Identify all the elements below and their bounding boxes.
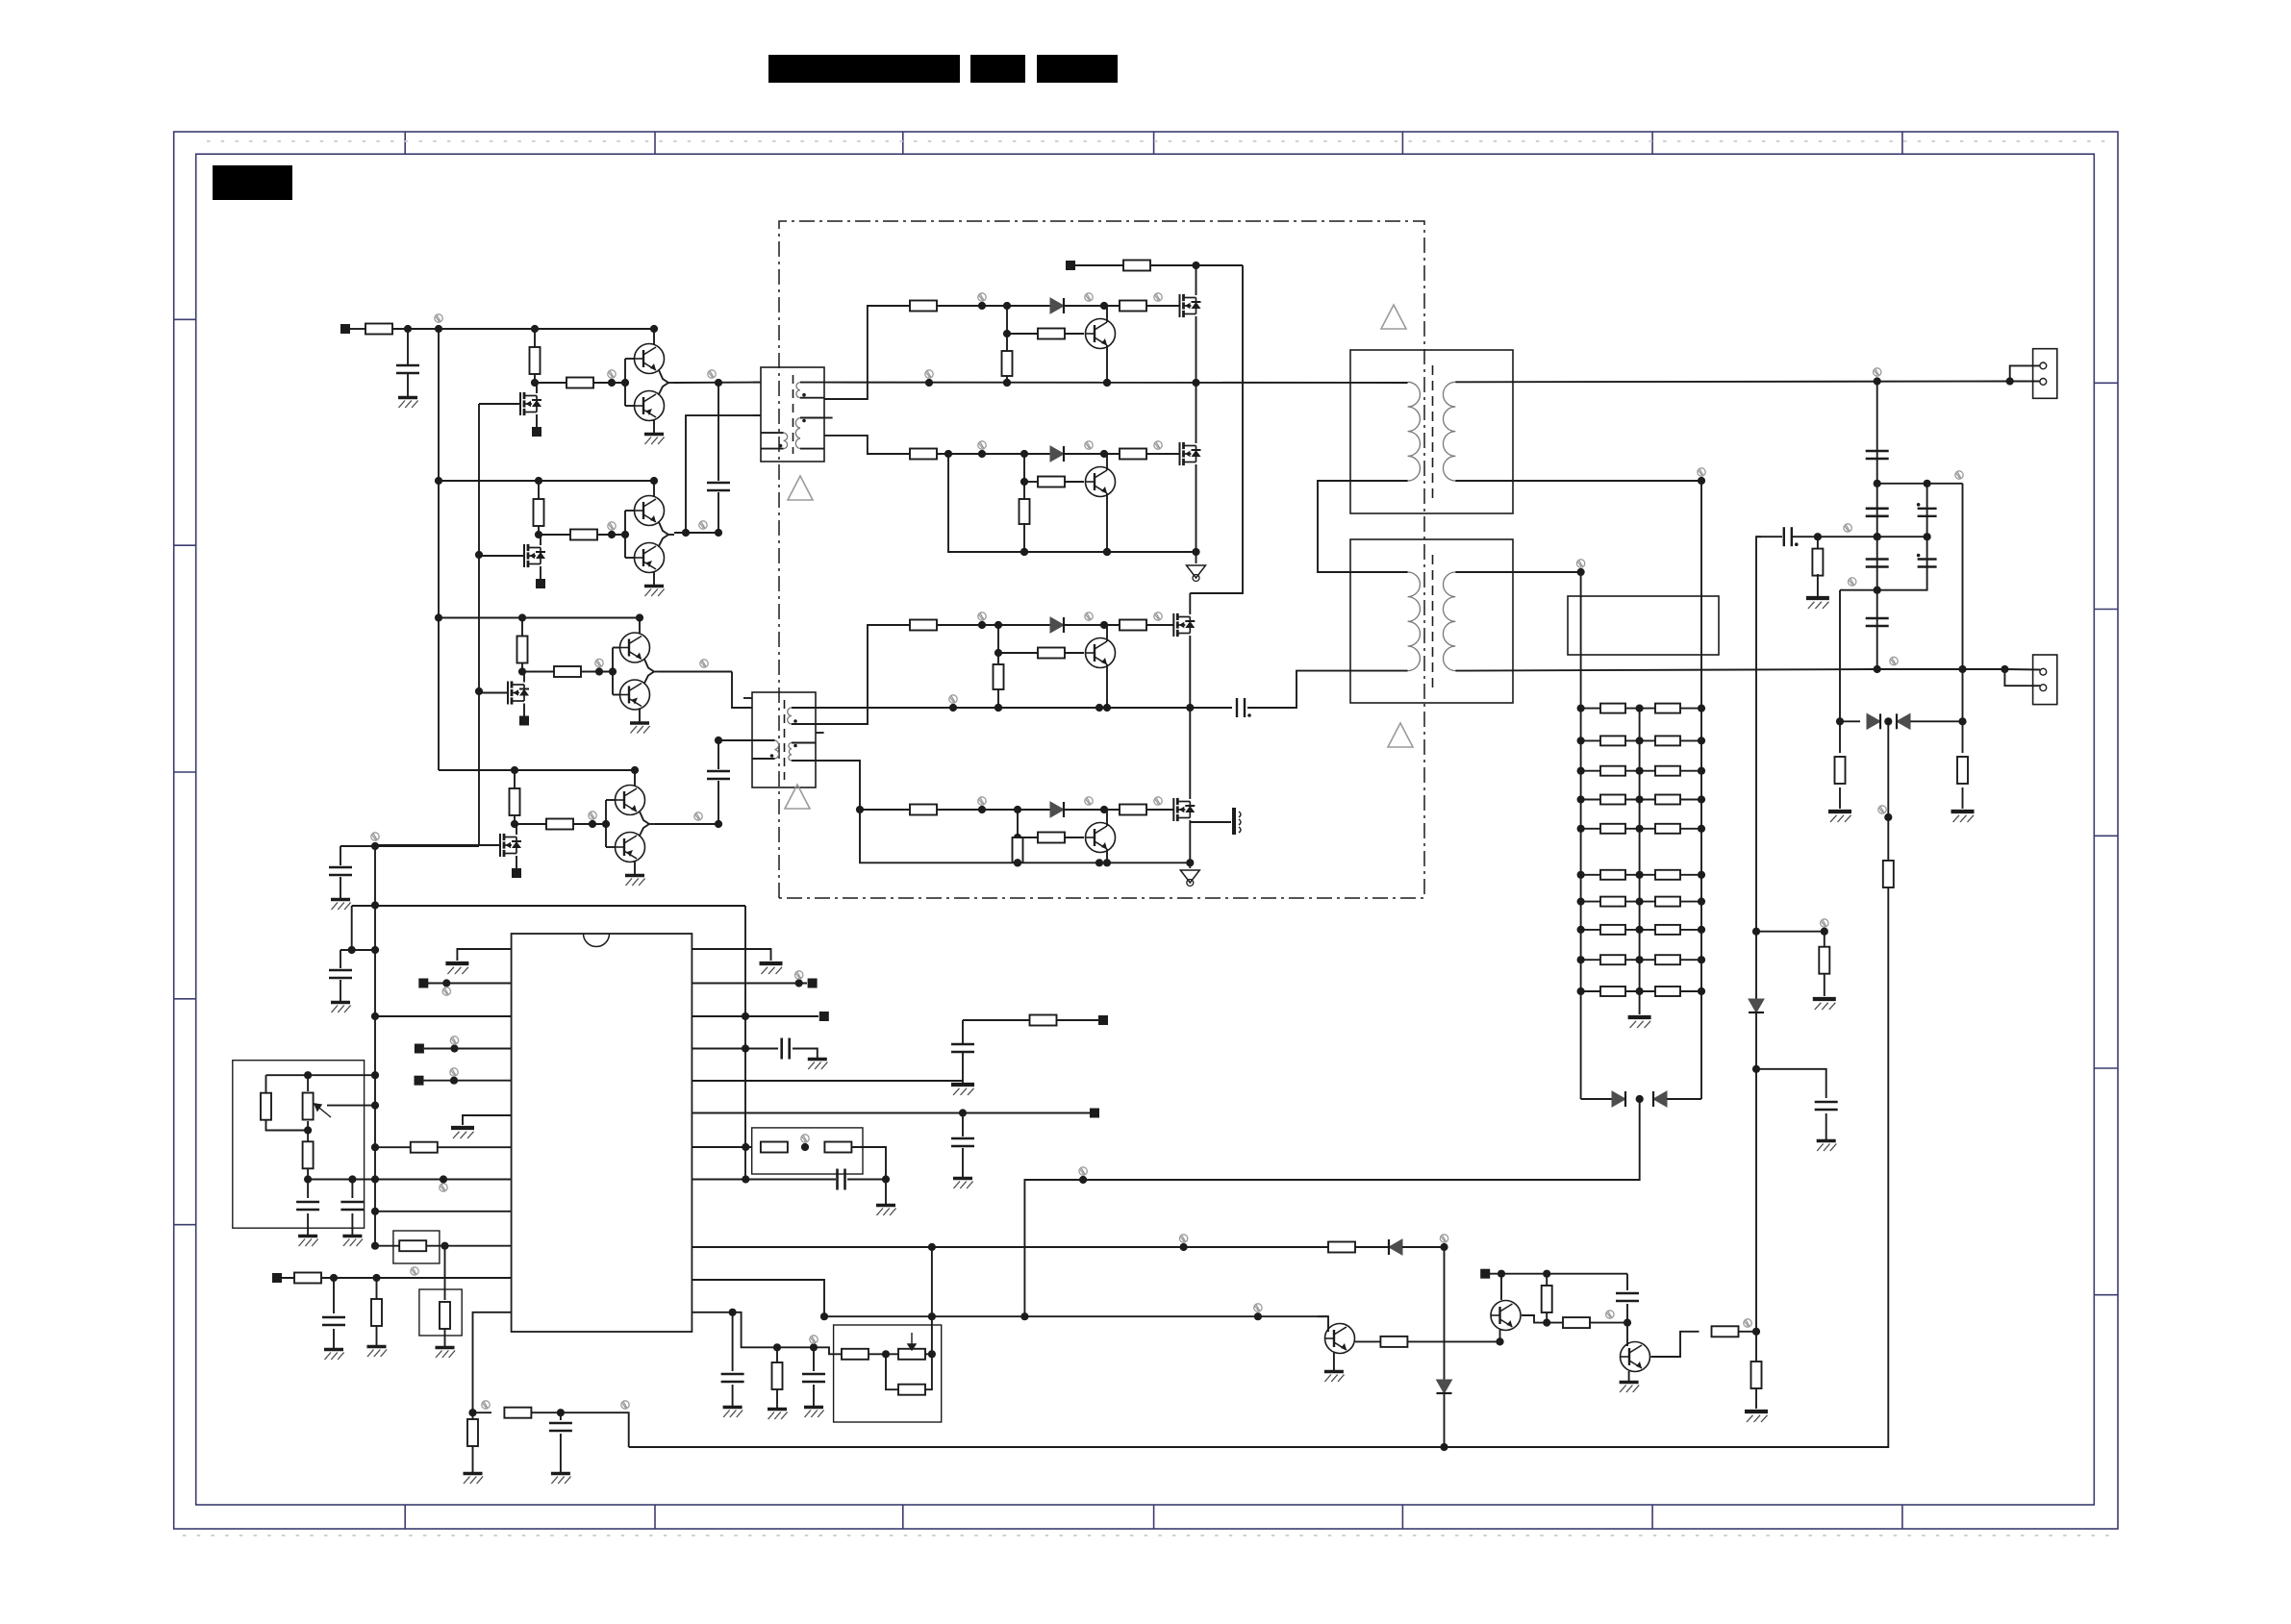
ladder resistor L6b <box>1655 870 1680 880</box>
wire <box>1355 1246 1389 1248</box>
wire <box>1824 932 1825 946</box>
wire <box>376 1278 378 1299</box>
ground <box>630 723 650 734</box>
junction <box>1698 926 1705 934</box>
ground <box>644 435 665 445</box>
ground <box>331 1003 351 1013</box>
junction <box>1192 548 1199 556</box>
ladder row wire <box>1581 929 1701 931</box>
capacitor <box>782 1038 790 1060</box>
T1 polarity dot <box>802 419 806 423</box>
resistor <box>467 1419 478 1446</box>
main transformer T3 body <box>1350 350 1513 513</box>
resistor <box>898 1385 925 1395</box>
frame column tick <box>902 132 904 154</box>
junction <box>1636 898 1644 906</box>
T3 core <box>1432 365 1434 498</box>
ground <box>808 1060 828 1070</box>
transistor Q2a <box>635 496 665 526</box>
resistor <box>1751 1362 1762 1388</box>
resistor <box>399 1240 426 1251</box>
resistor <box>1328 1242 1355 1253</box>
junction <box>1577 825 1585 833</box>
T1 primary winding <box>784 433 788 449</box>
wire <box>962 1148 964 1177</box>
wire <box>660 671 732 673</box>
junction <box>925 379 933 387</box>
wire <box>2010 381 2040 383</box>
ladder resistor L9a <box>1600 955 1625 964</box>
wire <box>1877 483 1963 485</box>
junction <box>1577 956 1585 963</box>
cell2 output <box>668 534 674 536</box>
T1 polarity dot <box>779 444 783 448</box>
frame row tick <box>2094 835 2118 837</box>
T2 lead <box>792 742 816 744</box>
wire <box>1590 1322 1627 1324</box>
ladder row wire <box>1581 770 1701 772</box>
MOSFET M5 <box>1180 294 1201 317</box>
terminal pad <box>272 1273 282 1283</box>
resistor R3b <box>554 666 581 677</box>
wire <box>307 1075 309 1091</box>
junction <box>715 379 722 387</box>
transistor Q3b <box>620 680 650 710</box>
wire <box>1756 1069 1826 1098</box>
MOSFET M3 <box>508 681 529 704</box>
junction <box>1103 379 1111 387</box>
resistor <box>294 1273 321 1284</box>
junction <box>1095 704 1103 712</box>
junction <box>511 766 518 774</box>
junction <box>608 531 616 538</box>
ladder row wire <box>1581 959 1701 961</box>
wire <box>1962 787 1964 809</box>
junction <box>1577 568 1585 576</box>
M8 drain <box>1189 708 1191 799</box>
M6 source <box>1196 464 1197 552</box>
IC pin wire <box>375 1245 512 1247</box>
diode D2 <box>1050 446 1064 462</box>
ladder row wire <box>1581 828 1701 830</box>
junction <box>1020 478 1028 486</box>
cell1 emitter wire <box>653 420 655 433</box>
test point <box>795 971 803 979</box>
cell2 emitter wire <box>653 572 655 585</box>
resistor R3e <box>994 664 1004 689</box>
resistor <box>1957 757 1968 784</box>
terminal pad <box>418 979 428 988</box>
cell2 base wire <box>624 511 626 558</box>
frame row tick <box>2094 1067 2118 1069</box>
supply bus <box>438 329 440 770</box>
ladder mid rail <box>1639 709 1641 1014</box>
capacitor <box>1866 451 1889 459</box>
wire <box>307 1121 309 1180</box>
wire <box>813 1347 815 1371</box>
resistor R1a <box>530 347 541 374</box>
junction <box>810 1343 818 1351</box>
cell2 wire <box>539 534 625 536</box>
junction <box>944 450 952 458</box>
junction <box>1100 621 1108 629</box>
ground <box>445 963 468 974</box>
test point <box>978 441 986 449</box>
branch1 base wire <box>1007 333 1038 335</box>
test point <box>1085 441 1093 449</box>
junction <box>949 704 957 712</box>
ground <box>951 1085 974 1095</box>
cell4 wire <box>515 823 606 825</box>
junction <box>978 621 986 629</box>
wire <box>1739 1331 1757 1333</box>
junction <box>1254 1312 1262 1320</box>
wire <box>885 1180 887 1205</box>
junction <box>535 531 542 538</box>
wire <box>560 1434 562 1472</box>
cell3 output wire <box>644 660 654 672</box>
wire <box>1056 1019 1098 1021</box>
branch1 wire <box>937 305 1052 307</box>
junction <box>1020 1312 1028 1320</box>
branch1 collector <box>1106 306 1108 322</box>
branch1 col wire <box>1006 306 1008 383</box>
cell1 source wire <box>536 414 538 428</box>
wire <box>444 1329 446 1346</box>
junction <box>1103 548 1111 556</box>
T1 polarity dot <box>802 393 806 397</box>
junction <box>715 737 722 744</box>
junction <box>1636 825 1644 833</box>
cell4 output wire <box>640 824 649 836</box>
diode D12 <box>1897 713 1910 729</box>
transistor Q1b <box>635 391 665 421</box>
CN1 pin 2 <box>2040 379 2047 386</box>
junction <box>1103 548 1111 556</box>
junction <box>371 1012 379 1020</box>
IC pin wire <box>692 1080 963 1082</box>
ground <box>625 876 645 887</box>
T2 core <box>784 700 786 780</box>
junction <box>371 1102 379 1110</box>
wire <box>793 1049 818 1059</box>
wire <box>1247 671 1408 708</box>
branch4 wire <box>1146 809 1173 811</box>
terminal pad <box>532 427 541 437</box>
test point <box>699 521 707 529</box>
main transformer T4 body <box>1350 539 1513 703</box>
junction <box>1577 705 1585 712</box>
test point <box>1085 612 1093 620</box>
T3 primary winding <box>1408 382 1421 481</box>
cell3 source wire <box>523 704 525 717</box>
junction <box>304 1175 312 1183</box>
junction <box>1020 548 1028 556</box>
branch3 wire <box>1064 624 1120 626</box>
junction <box>2006 377 2014 385</box>
junction <box>1095 859 1103 866</box>
resistor R1f <box>1038 329 1065 339</box>
capacitor <box>329 867 352 875</box>
T1 lead <box>800 448 824 450</box>
diode D9 <box>1612 1091 1625 1107</box>
wire <box>732 1385 734 1406</box>
junction <box>959 1109 967 1116</box>
ladder resistor L7a <box>1600 897 1625 907</box>
Q11 emitter <box>1628 1371 1630 1381</box>
cell2 drain wire <box>540 535 541 545</box>
junction <box>1577 737 1585 744</box>
cell4 output <box>649 823 655 825</box>
earth ground <box>1187 565 1206 578</box>
cell4 base wire <box>605 800 607 847</box>
junction <box>1698 795 1705 803</box>
resistor R4e <box>1013 837 1023 862</box>
junction <box>1698 898 1705 906</box>
chassis ground <box>1234 808 1241 835</box>
ladder resistor L8a <box>1600 925 1625 935</box>
terminal pad <box>1480 1269 1490 1279</box>
capacitor <box>396 365 419 373</box>
wire <box>1840 589 1877 591</box>
junction <box>1100 806 1108 813</box>
ladder right rail <box>1700 481 1702 1099</box>
wire <box>340 980 341 1001</box>
cell1 base wire <box>624 359 626 406</box>
potentiometer wiper <box>315 1104 331 1117</box>
wire <box>351 906 353 950</box>
junction <box>1836 717 1844 725</box>
wire <box>816 625 910 724</box>
junction <box>1874 480 1881 487</box>
wire <box>340 846 341 865</box>
lamp block <box>1568 596 1719 655</box>
frame column tick <box>1901 132 1903 154</box>
wire <box>1490 1273 1627 1275</box>
MOSFET M6 <box>1180 442 1201 465</box>
T1 primary lead <box>761 432 784 434</box>
junction <box>1884 717 1892 725</box>
T2 polarity dot <box>793 744 797 748</box>
T1 lead <box>800 382 824 384</box>
wire <box>307 1213 309 1235</box>
test point <box>450 1037 458 1044</box>
junction <box>621 379 629 387</box>
wire <box>847 1179 886 1181</box>
M5 drain <box>1196 265 1197 295</box>
ladder row wire <box>1581 990 1701 992</box>
component box <box>419 1289 462 1336</box>
cell4 rail <box>439 769 635 771</box>
terminal pad <box>819 1012 829 1021</box>
resistor R2a <box>534 499 544 526</box>
branch3 wire <box>1146 624 1173 626</box>
branch4 wire <box>1064 809 1120 811</box>
test point <box>1154 293 1162 301</box>
junction <box>1440 1443 1448 1451</box>
resistor <box>1030 1015 1057 1026</box>
test point <box>978 797 986 805</box>
junction <box>795 979 803 987</box>
junction <box>475 551 483 559</box>
wire <box>472 1446 474 1472</box>
ladder resistor L2b <box>1655 736 1680 745</box>
resistor R1c <box>910 301 937 312</box>
test point <box>371 833 379 840</box>
cell2 rail <box>439 480 654 482</box>
T2 lead <box>792 707 816 709</box>
connector CN1 <box>2033 349 2057 399</box>
resistor <box>772 1362 783 1389</box>
branch2 wire <box>1064 453 1120 455</box>
wire <box>1840 720 1860 722</box>
warning triangle <box>788 476 813 500</box>
wire <box>1626 1304 1628 1323</box>
branch1 wire <box>1146 305 1180 307</box>
cell2 output wire <box>659 522 668 535</box>
ground <box>1828 812 1851 822</box>
junction <box>856 806 864 813</box>
polarized capacitor <box>1918 560 1937 567</box>
test point <box>810 1336 818 1343</box>
junction <box>531 379 539 387</box>
ladder row wire <box>1581 799 1701 801</box>
junction <box>1498 1270 1505 1278</box>
junction <box>595 667 603 675</box>
cell4 wire <box>606 799 616 801</box>
branch3 base wire <box>998 652 1038 654</box>
junction <box>1100 450 1108 458</box>
IC pin wire <box>282 1277 512 1279</box>
ladder row wire <box>1581 901 1701 903</box>
branch2 wire <box>1065 481 1084 483</box>
junction <box>1636 926 1644 934</box>
cell3 output <box>654 671 660 673</box>
T3 secondary bottom lead <box>1455 480 1701 482</box>
test point <box>1878 806 1886 813</box>
junction <box>1698 477 1705 485</box>
resistor R2b <box>570 530 597 540</box>
capacitor <box>1866 618 1889 626</box>
drain rail <box>1190 265 1243 593</box>
resistor <box>365 324 392 335</box>
junction <box>518 613 526 621</box>
cell4 output wire <box>640 812 649 824</box>
junction <box>1636 956 1644 963</box>
junction <box>1577 926 1585 934</box>
ladder left rail <box>1580 572 1582 1099</box>
junction <box>650 477 658 485</box>
junction <box>1752 928 1760 936</box>
junction <box>1958 717 1966 725</box>
junction <box>371 1208 379 1215</box>
junction <box>1014 859 1021 866</box>
T1 core <box>793 375 794 454</box>
wire <box>674 382 761 384</box>
junction <box>1577 795 1585 803</box>
drain rail <box>1150 264 1243 266</box>
resistor <box>1563 1317 1590 1328</box>
cell1 wire <box>625 405 635 407</box>
cell1 collector wire <box>653 329 655 344</box>
frame column tick <box>1651 132 1653 154</box>
ground <box>1628 1017 1651 1028</box>
frame column tick <box>1153 132 1155 154</box>
ladder resistor L9b <box>1655 955 1680 964</box>
T2 primary winding <box>775 740 779 759</box>
node rail <box>948 454 1196 552</box>
transistor Q10 <box>1491 1301 1521 1331</box>
IC pin wire <box>424 1048 512 1050</box>
cell1 output wire <box>659 383 668 394</box>
wire <box>340 950 341 968</box>
wire <box>351 1213 353 1235</box>
wire <box>351 1180 353 1199</box>
junction <box>1003 302 1011 310</box>
test point <box>1154 797 1162 805</box>
junction <box>1814 533 1822 540</box>
junction <box>371 1143 379 1151</box>
resistor R1e <box>1002 351 1013 376</box>
wire <box>1388 1246 1390 1248</box>
M7 source <box>1189 636 1191 708</box>
branch4 col wire <box>1017 810 1019 862</box>
capacitor <box>1866 560 1889 567</box>
ground <box>1951 812 1975 822</box>
transistor Q2b <box>635 543 665 573</box>
resistor <box>1835 757 1846 784</box>
junction <box>1014 834 1021 841</box>
wire <box>886 1354 899 1389</box>
terminal pad <box>340 324 350 334</box>
MOSFET M7 <box>1173 613 1195 637</box>
IC pin-1 notch <box>584 934 610 947</box>
junction <box>1020 450 1028 458</box>
resistor <box>761 1142 788 1153</box>
test point <box>1744 1319 1751 1327</box>
ladder resistor L4a <box>1600 795 1625 805</box>
wire <box>340 877 341 898</box>
resistor R4a <box>510 788 520 815</box>
diode D14 <box>1389 1239 1402 1255</box>
junction <box>978 450 986 458</box>
resistor R3c <box>910 620 937 631</box>
test point <box>694 812 702 820</box>
ground <box>324 1350 344 1361</box>
resistor <box>1712 1326 1739 1337</box>
wire <box>718 383 719 481</box>
wiper wire <box>327 1105 375 1107</box>
junction <box>801 1143 809 1151</box>
capacitor <box>838 1169 845 1190</box>
resistor R2c <box>910 449 937 460</box>
node rail <box>860 810 1190 862</box>
cell4 wire <box>514 770 516 824</box>
IC pin wire <box>375 1211 512 1212</box>
ground <box>1806 598 1829 609</box>
IC pin wire <box>692 1015 818 1017</box>
ladder row wire <box>1581 739 1701 741</box>
capacitor <box>721 1374 744 1382</box>
resistor R2f <box>1038 477 1065 487</box>
test point <box>608 522 616 530</box>
wire <box>963 1019 1030 1021</box>
wire <box>1581 1098 1612 1100</box>
MOSFET M8 <box>1173 798 1195 821</box>
wire <box>1407 1340 1499 1342</box>
wire <box>1817 574 1819 596</box>
test point <box>1821 919 1828 927</box>
